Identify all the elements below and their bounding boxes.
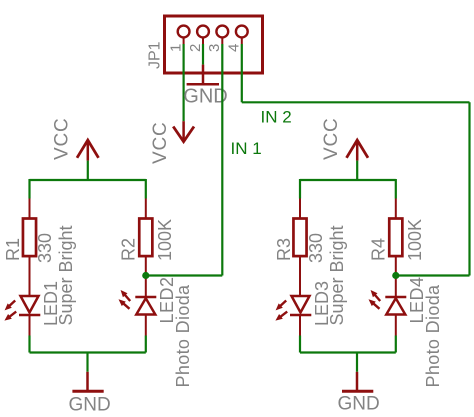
pin 2 circle [197,26,209,38]
resistor R3 bottom lead [299,257,301,297]
wire LED3 to bottom rail [299,336,301,353]
svg-text:330: 330 [306,233,326,263]
LED2 arrow b [119,299,130,309]
svg-text:Super Bright: Super Bright [56,225,76,325]
resistor R2 bottom lead [145,257,147,298]
svg-text:Photo Dioda: Photo Dioda [423,284,443,388]
wire IN 2: pin4 down [241,44,243,102]
svg-text:Super Bright: Super Bright [327,225,347,325]
LED4 arrow a [371,290,381,301]
pin 4 circle [236,26,248,38]
LED3 cathode bar [290,314,311,317]
pin 3 stub [221,37,223,44]
svg-text:VCC: VCC [321,117,342,160]
LED2 cathode bar [135,296,156,299]
supply symbol VCC (center, down arrow) [173,121,194,142]
LED1 cathode bar [19,314,40,317]
svg-text:VCC: VCC [150,121,171,164]
wire LED1 to bottom rail [28,336,30,353]
wire right bottom rail [300,351,396,353]
wire VCC right stem [356,161,358,180]
resistor R1 [23,219,36,257]
LED3 emission arrow b [275,312,287,321]
svg-text:3: 3 [206,44,223,52]
svg-text:R2: R2 [119,238,139,261]
wire left rail to R2 [145,179,147,199]
supply symbol VCC (right, up arrow) [347,140,369,161]
LED1 emission arrow b [4,312,16,321]
wire pin2 to GND [202,44,204,65]
svg-text:Photo Dioda: Photo Dioda [173,284,193,388]
junction node IN2/LED4 [392,272,399,279]
ground symbol (right) [342,372,373,392]
wire left top rail [30,179,146,181]
LED4 bottom lead [395,315,397,336]
pin 2 stub [202,37,204,44]
junction node IN1/LED2 [142,272,149,279]
pin 1 circle [178,26,190,38]
pin 4 stub [241,37,243,44]
wire right rail to R3 [299,179,301,199]
resistor R4 top lead [395,199,397,220]
wire right top rail [300,179,396,181]
ground symbol (left) [72,372,103,392]
wire LED2 to bottom rail [145,336,147,353]
svg-text:R3: R3 [274,238,294,261]
LED4 triangle [386,298,405,314]
wire IN 2: to LED4 junction [396,274,470,276]
svg-text:330: 330 [35,233,55,263]
resistor R4 bottom lead [395,257,397,298]
wire IN 2: right side down [468,102,470,275]
wire LED4 to bottom rail [395,336,397,353]
resistor R1 bottom lead [29,257,31,297]
LED1 emission arrow a [5,301,16,311]
wire left GND stem [86,353,88,372]
resistor R3 [293,219,306,257]
LED1 bottom lead [29,315,31,336]
svg-text:GND: GND [338,394,380,415]
LED3 triangle [292,296,310,313]
wire IN 1: pin3 down [221,44,223,276]
svg-text:100K: 100K [155,219,175,261]
LED2 bottom lead [145,315,147,336]
svg-text:R4: R4 [369,238,389,261]
LED4 cathode bar [385,296,406,299]
LED2 triangle [136,298,155,314]
wire VCC left stem [87,161,89,180]
svg-text:1: 1 [167,44,184,52]
svg-text:GND: GND [183,86,227,108]
wire right rail to R4 [395,179,397,199]
svg-text:R1: R1 [3,238,23,261]
LED3 emission arrow a [276,301,287,311]
svg-text:GND: GND [69,394,111,415]
wire right GND stem [356,353,358,372]
svg-text:JP1: JP1 [147,41,164,69]
LED1 triangle [21,296,39,313]
wire pin1 to VCC [183,44,185,121]
wire left bottom rail [30,351,146,353]
svg-text:IN 2: IN 2 [261,108,292,127]
resistor R1 top lead [29,199,31,220]
resistor R4 [389,219,402,257]
wire IN 1: to LED2 junction [146,274,223,276]
resistor R2 top lead [145,199,147,220]
LED4 arrow b [369,299,380,309]
LED3 bottom lead [299,315,301,336]
connector JP1 body [165,16,263,73]
wire IN 2: across top [242,101,470,103]
pin 3 circle [216,26,228,38]
svg-text:2: 2 [187,44,204,52]
resistor R3 top lead [299,199,301,220]
svg-text:100K: 100K [405,219,425,261]
svg-text:VCC: VCC [52,117,73,160]
svg-text:IN 1: IN 1 [231,139,262,158]
wire left rail to R1 [28,179,30,199]
resistor R2 [139,219,152,257]
LED2 arrow a [121,290,131,301]
svg-text:4: 4 [226,44,243,52]
pin 1 stub [183,37,185,44]
ground symbol (top, under JP1) [187,65,219,85]
supply symbol VCC (left, up arrow) [77,140,99,161]
